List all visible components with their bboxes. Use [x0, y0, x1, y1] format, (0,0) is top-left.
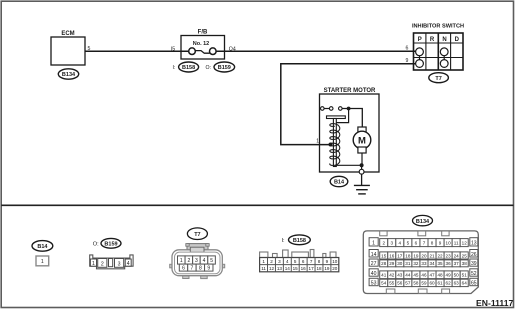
- svg-text:B134: B134: [416, 219, 430, 225]
- svg-text:2: 2: [188, 258, 191, 264]
- svg-text:13: 13: [471, 240, 477, 246]
- B134 middle pin rows: [380, 239, 469, 287]
- svg-text:6: 6: [182, 266, 185, 272]
- wire inhibitor pin 9 to starter terminal 1: [281, 64, 416, 145]
- svg-text:31: 31: [405, 261, 411, 266]
- svg-text:51: 51: [462, 273, 468, 278]
- svg-text:T7: T7: [435, 76, 441, 82]
- svg-text:12: 12: [269, 266, 275, 271]
- svg-text:1: 1: [180, 258, 183, 264]
- svg-text:3: 3: [195, 258, 198, 264]
- svg-text:I:: I:: [173, 65, 176, 71]
- inhibitor switch P contacts: [416, 48, 424, 68]
- svg-text:STARTER MOTOR: STARTER MOTOR: [324, 88, 376, 94]
- svg-text:14: 14: [371, 252, 377, 258]
- svg-text:43: 43: [397, 273, 403, 278]
- svg-text:39: 39: [471, 261, 477, 267]
- wire junction to plunger: [336, 109, 348, 123]
- svg-text:4: 4: [399, 240, 402, 245]
- svg-text:19: 19: [413, 253, 419, 258]
- svg-text:17: 17: [397, 253, 403, 258]
- terminal 1 junction dot: [329, 143, 333, 147]
- svg-text:20: 20: [332, 266, 338, 271]
- svg-text:T7: T7: [194, 232, 200, 238]
- svg-text:17: 17: [309, 266, 315, 271]
- svg-text:48: 48: [438, 273, 444, 278]
- svg-text:58: 58: [413, 281, 419, 286]
- svg-text:B158: B158: [293, 238, 306, 244]
- svg-text:47: 47: [429, 273, 435, 278]
- svg-text:F/B: F/B: [198, 30, 208, 36]
- inhibitor switch: [412, 23, 464, 70]
- svg-text:15: 15: [381, 253, 387, 258]
- svg-text:19: 19: [324, 266, 330, 271]
- svg-text:35: 35: [438, 261, 444, 266]
- wire to case terminal: [361, 165, 363, 169]
- junction dot: [347, 107, 351, 111]
- case terminal circle: [359, 169, 364, 174]
- svg-text:8: 8: [199, 266, 202, 272]
- svg-text:42: 42: [389, 273, 395, 278]
- section divider line: [1, 204, 513, 206]
- svg-text:4: 4: [286, 259, 289, 264]
- svg-text:7: 7: [310, 259, 313, 264]
- svg-text:49: 49: [446, 273, 452, 278]
- connector label I: B158: [173, 62, 199, 72]
- svg-text:55: 55: [389, 281, 395, 286]
- svg-text:5: 5: [210, 258, 213, 264]
- svg-text:8: 8: [318, 259, 321, 264]
- svg-text:10: 10: [446, 240, 452, 245]
- svg-text:29: 29: [389, 261, 395, 266]
- wire F/B to inhibitor switch pin 6: [216, 50, 416, 52]
- svg-text:37: 37: [454, 261, 460, 266]
- svg-text:I:: I:: [282, 238, 286, 244]
- svg-text:65: 65: [471, 281, 477, 287]
- starter motor box: [320, 88, 380, 172]
- svg-text:18: 18: [405, 253, 411, 258]
- svg-text:12: 12: [462, 240, 468, 245]
- wire coil bottom to junction: [335, 164, 362, 166]
- svg-text:1: 1: [262, 259, 265, 264]
- svg-text:15: 15: [293, 266, 299, 271]
- svg-text:5: 5: [294, 259, 297, 264]
- svg-text:45: 45: [413, 273, 419, 278]
- svg-text:4: 4: [203, 258, 206, 264]
- svg-text:61: 61: [438, 281, 444, 286]
- svg-text:64: 64: [462, 281, 468, 286]
- svg-text:3: 3: [118, 262, 121, 268]
- svg-text:32: 32: [413, 261, 419, 266]
- svg-text:B159: B159: [218, 65, 231, 71]
- svg-text:28: 28: [381, 261, 387, 266]
- svg-text:24: 24: [454, 253, 460, 258]
- svg-text:26: 26: [471, 252, 477, 258]
- svg-text:1: 1: [372, 240, 375, 246]
- connector B14 label: [330, 176, 348, 186]
- svg-text:R: R: [430, 37, 435, 43]
- svg-text:1: 1: [92, 261, 95, 267]
- svg-text:16: 16: [389, 253, 395, 258]
- svg-text:6: 6: [406, 46, 409, 52]
- bottom: connector B134 pinout: [413, 215, 433, 225]
- svg-text:8: 8: [431, 240, 434, 245]
- svg-text:1: 1: [316, 138, 319, 144]
- svg-text:11: 11: [261, 266, 266, 271]
- bottom: connector B159 pinout: [93, 238, 121, 248]
- svg-text:5: 5: [407, 240, 410, 245]
- solenoid coil: [330, 124, 340, 166]
- solenoid plunger: [327, 116, 346, 167]
- svg-text:50: 50: [454, 273, 460, 278]
- connector T7: [429, 73, 449, 83]
- svg-text:O:: O:: [93, 242, 99, 248]
- wire ECM to F/B: [85, 50, 189, 52]
- ECM: [51, 31, 85, 65]
- svg-text:30: 30: [397, 261, 403, 266]
- svg-text:7: 7: [191, 266, 194, 272]
- svg-text:6: 6: [302, 259, 305, 264]
- connector label O: B159: [206, 62, 235, 72]
- fuse No. 12: [189, 48, 216, 55]
- svg-text:59: 59: [421, 281, 427, 286]
- svg-text:60: 60: [429, 281, 435, 286]
- svg-text:B134: B134: [62, 72, 76, 78]
- svg-text:ECM: ECM: [61, 31, 74, 37]
- svg-text:22: 22: [438, 253, 444, 258]
- svg-text:54: 54: [381, 281, 387, 286]
- svg-text:6: 6: [415, 240, 418, 245]
- svg-text:B14: B14: [334, 180, 345, 186]
- bottom: connector B14 pinout: [32, 241, 53, 266]
- svg-text:N: N: [442, 37, 446, 43]
- bottom: connector B158 pinout: [282, 235, 311, 245]
- wire contact to motor: [342, 109, 362, 128]
- connector B134 (ECM): [58, 69, 78, 79]
- svg-text:38: 38: [462, 261, 468, 266]
- svg-text:B158: B158: [182, 65, 195, 71]
- svg-text:16: 16: [301, 266, 307, 271]
- svg-text:57: 57: [405, 281, 411, 286]
- svg-text:41: 41: [381, 273, 387, 278]
- svg-text:3: 3: [390, 240, 393, 245]
- svg-text:21: 21: [429, 253, 435, 258]
- svg-text:25: 25: [462, 253, 468, 258]
- svg-text:23: 23: [446, 253, 452, 258]
- svg-text:I5: I5: [171, 46, 175, 52]
- svg-text:34: 34: [429, 261, 435, 266]
- inhibitor switch N contacts: [440, 48, 448, 68]
- svg-text:20: 20: [421, 253, 427, 258]
- svg-text:9: 9: [207, 266, 210, 272]
- svg-text:D: D: [455, 37, 460, 43]
- svg-text:B14: B14: [37, 244, 48, 250]
- svg-text:INHIBITOR SWITCH: INHIBITOR SWITCH: [412, 23, 464, 29]
- svg-text:33: 33: [421, 261, 427, 266]
- svg-text:62: 62: [446, 281, 452, 286]
- svg-text:46: 46: [421, 273, 427, 278]
- svg-text:4: 4: [127, 261, 130, 267]
- svg-text:No. 12: No. 12: [193, 41, 210, 47]
- svg-text:56: 56: [397, 281, 403, 286]
- svg-text:2: 2: [382, 240, 385, 245]
- fuse box F/B: [181, 30, 225, 60]
- svg-text:10: 10: [332, 259, 338, 264]
- svg-text:O:: O:: [206, 65, 211, 71]
- svg-text:53: 53: [371, 281, 377, 287]
- svg-text:EN-11117: EN-11117: [476, 298, 513, 308]
- svg-text:3: 3: [278, 259, 281, 264]
- svg-text:27: 27: [371, 261, 377, 267]
- svg-text:11: 11: [454, 240, 459, 245]
- svg-text:1: 1: [41, 259, 44, 265]
- wire to ground: [361, 174, 363, 185]
- svg-text:36: 36: [446, 261, 452, 266]
- motor M: [353, 127, 371, 165]
- svg-text:9: 9: [439, 240, 442, 245]
- bottom: connector T7 pinout: [187, 228, 207, 240]
- svg-text:9: 9: [326, 259, 329, 264]
- svg-text:2: 2: [101, 262, 104, 268]
- magnetic switch contacts: [321, 107, 343, 111]
- svg-text:2: 2: [270, 259, 273, 264]
- svg-text:52: 52: [471, 271, 477, 277]
- svg-text:M: M: [358, 135, 366, 146]
- svg-text:P: P: [418, 37, 422, 43]
- svg-text:44: 44: [405, 273, 411, 278]
- svg-text:63: 63: [454, 281, 460, 286]
- svg-text:B159: B159: [104, 242, 117, 248]
- svg-text:13: 13: [277, 266, 283, 271]
- svg-text:40: 40: [371, 271, 377, 277]
- ground: [354, 185, 370, 194]
- svg-text:18: 18: [316, 266, 322, 271]
- bottom junction dot: [360, 163, 364, 167]
- svg-text:14: 14: [285, 266, 291, 271]
- svg-text:7: 7: [423, 240, 426, 245]
